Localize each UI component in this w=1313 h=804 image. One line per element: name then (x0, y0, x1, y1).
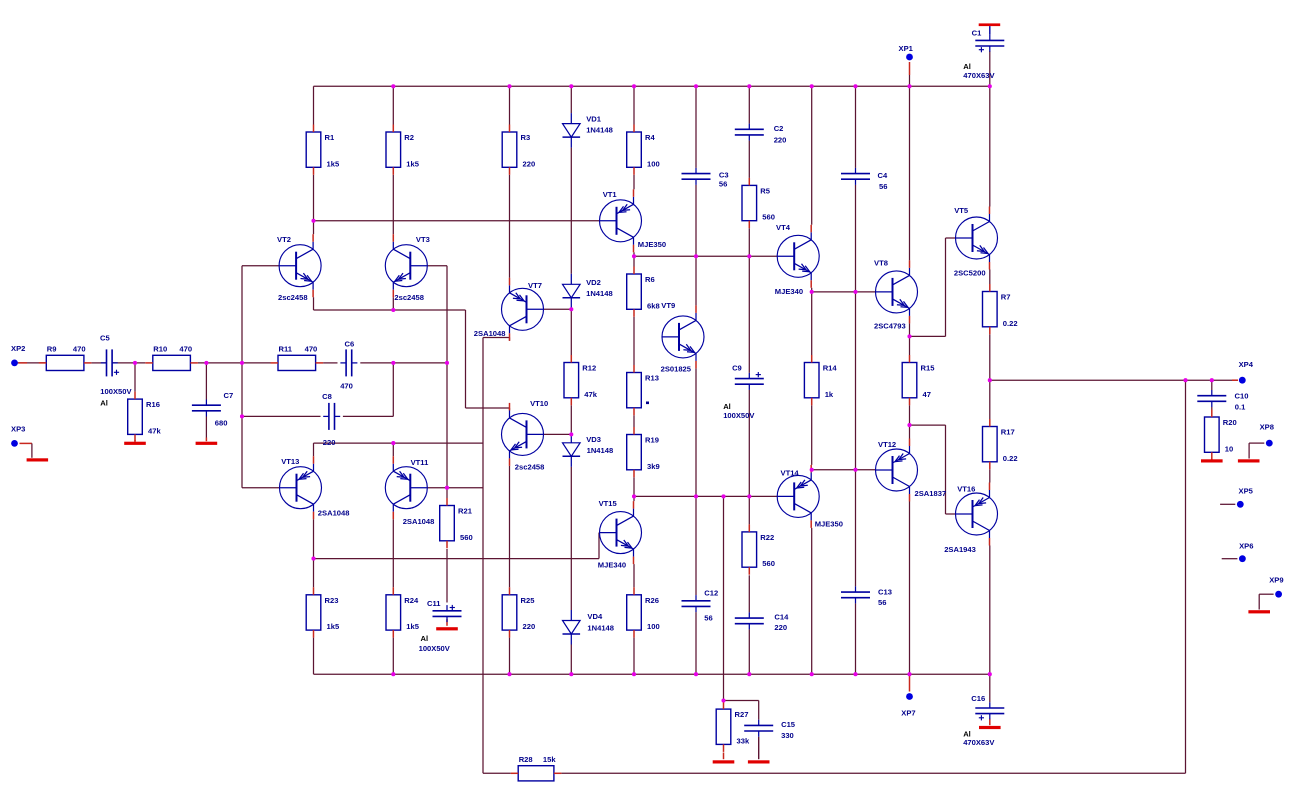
svg-text:3k9: 3k9 (647, 462, 660, 471)
svg-text:VT15: VT15 (599, 499, 618, 508)
svg-text:R24: R24 (404, 596, 419, 605)
svg-text:C16: C16 (971, 694, 985, 703)
svg-text:VD3: VD3 (586, 435, 601, 444)
svg-text:C6: C6 (345, 339, 355, 348)
svg-text:2sc2458: 2sc2458 (394, 293, 424, 302)
svg-text:VT11: VT11 (411, 458, 430, 467)
svg-text:R17: R17 (1001, 428, 1015, 437)
svg-text:R13: R13 (645, 374, 659, 383)
svg-text:470: 470 (340, 381, 353, 390)
svg-text:R2: R2 (404, 133, 414, 142)
svg-text:6k8: 6k8 (647, 301, 660, 310)
svg-text:2sc2458: 2sc2458 (515, 463, 545, 472)
svg-text:2SA1837: 2SA1837 (915, 489, 947, 498)
svg-text:R16: R16 (146, 400, 160, 409)
svg-text:R19: R19 (645, 436, 659, 445)
svg-text:VD4: VD4 (587, 612, 603, 621)
svg-text:C4: C4 (878, 171, 888, 180)
svg-text:56: 56 (719, 180, 727, 189)
svg-text:XP2: XP2 (11, 344, 25, 353)
svg-text:C10: C10 (1235, 392, 1249, 401)
svg-text:VD1: VD1 (586, 115, 602, 124)
svg-text:XP7: XP7 (901, 709, 915, 718)
svg-text:R12: R12 (582, 364, 596, 373)
svg-text:0.1: 0.1 (1235, 403, 1246, 412)
svg-text:VD2: VD2 (586, 278, 601, 287)
svg-text:R11: R11 (279, 345, 293, 354)
svg-text:R15: R15 (921, 364, 936, 373)
svg-text:C7: C7 (224, 391, 234, 400)
svg-text:1N4148: 1N4148 (586, 289, 613, 298)
svg-text:1k5: 1k5 (327, 159, 340, 168)
svg-text:56: 56 (704, 613, 712, 622)
svg-text:R28: R28 (519, 755, 533, 764)
svg-text:560: 560 (762, 559, 775, 568)
svg-text:R4: R4 (645, 133, 655, 142)
svg-text:560: 560 (460, 533, 473, 542)
svg-text:1k5: 1k5 (327, 622, 340, 631)
svg-text:R5: R5 (760, 186, 770, 195)
svg-text:R3: R3 (521, 133, 531, 142)
svg-text:MJE350: MJE350 (815, 520, 843, 529)
svg-text:33k: 33k (737, 736, 750, 745)
svg-text:VT2: VT2 (277, 235, 291, 244)
svg-text:2SA1048: 2SA1048 (318, 509, 350, 518)
svg-text:47k: 47k (584, 390, 597, 399)
svg-text:15k: 15k (543, 755, 556, 764)
svg-text:R14: R14 (823, 364, 838, 373)
svg-text:220: 220 (323, 438, 336, 447)
svg-text:VT16: VT16 (957, 485, 975, 494)
svg-text:Al: Al (100, 399, 108, 408)
svg-text:330: 330 (781, 731, 794, 740)
svg-text:R1: R1 (325, 133, 335, 142)
svg-text:VT1: VT1 (603, 190, 618, 199)
svg-text:220: 220 (774, 135, 787, 144)
svg-text:R25: R25 (521, 596, 536, 605)
svg-text:2SA1048: 2SA1048 (474, 329, 506, 338)
svg-text:XP9: XP9 (1269, 576, 1283, 585)
svg-text:470X63V: 470X63V (963, 71, 995, 80)
svg-text:R26: R26 (645, 596, 659, 605)
svg-text:VT8: VT8 (874, 259, 888, 268)
svg-text:VT12: VT12 (878, 440, 896, 449)
svg-text:C12: C12 (704, 588, 718, 597)
svg-text:MJE340: MJE340 (598, 561, 626, 570)
svg-text:1k5: 1k5 (406, 622, 419, 631)
svg-text:100X50V: 100X50V (723, 411, 755, 420)
svg-text:R7: R7 (1001, 293, 1011, 302)
svg-text:R6: R6 (645, 275, 655, 284)
svg-text:220: 220 (523, 159, 536, 168)
svg-text:VT3: VT3 (416, 235, 430, 244)
svg-text:C14: C14 (774, 612, 789, 621)
svg-text:R10: R10 (153, 345, 167, 354)
svg-text:470: 470 (305, 345, 318, 354)
svg-text:0.22: 0.22 (1003, 319, 1018, 328)
svg-text:470: 470 (179, 345, 192, 354)
svg-text:VT5: VT5 (954, 206, 969, 215)
svg-text:220: 220 (523, 622, 536, 631)
svg-text:1k: 1k (825, 390, 834, 399)
svg-text:XP4: XP4 (1239, 360, 1254, 369)
svg-text:C2: C2 (774, 124, 784, 133)
svg-text:100X50V: 100X50V (419, 644, 451, 653)
svg-text:C8: C8 (322, 392, 332, 401)
svg-text:VT10: VT10 (530, 399, 548, 408)
svg-text:2SA1943: 2SA1943 (944, 545, 976, 554)
svg-text:C11: C11 (427, 599, 441, 608)
svg-text:VT13: VT13 (281, 457, 299, 466)
svg-text:VT9: VT9 (661, 301, 675, 310)
svg-text:1k5: 1k5 (406, 159, 419, 168)
svg-text:470X63V: 470X63V (963, 738, 995, 747)
svg-text:R22: R22 (760, 533, 774, 542)
svg-text:Al: Al (963, 62, 971, 71)
svg-text:Al: Al (421, 634, 429, 643)
svg-text:2SC5200: 2SC5200 (954, 269, 986, 278)
svg-text:0.22: 0.22 (1003, 454, 1018, 463)
svg-text:1N4148: 1N4148 (587, 624, 614, 633)
svg-text:2S01825: 2S01825 (661, 365, 692, 374)
svg-text:2sc2458: 2sc2458 (278, 293, 308, 302)
svg-text:C1: C1 (972, 29, 982, 38)
svg-text:MJE340: MJE340 (775, 287, 803, 296)
svg-text:100X50V: 100X50V (100, 387, 132, 396)
svg-text:R20: R20 (1223, 418, 1237, 427)
svg-text:R23: R23 (325, 596, 339, 605)
svg-text:C15: C15 (781, 720, 796, 729)
svg-text:XP5: XP5 (1239, 487, 1254, 496)
svg-text:1N4148: 1N4148 (586, 126, 613, 135)
svg-text:XP3: XP3 (11, 425, 25, 434)
svg-text:100: 100 (647, 622, 660, 631)
svg-text:470: 470 (73, 345, 86, 354)
svg-text:XP6: XP6 (1239, 542, 1253, 551)
svg-text:2SC4793: 2SC4793 (874, 321, 906, 330)
svg-text:C5: C5 (100, 334, 110, 343)
svg-text:MJE350: MJE350 (638, 240, 666, 249)
svg-text:C13: C13 (878, 588, 892, 597)
svg-text:R9: R9 (47, 345, 57, 354)
svg-text:XP8: XP8 (1260, 423, 1274, 432)
svg-text:VT14: VT14 (781, 469, 800, 478)
svg-text:XP1: XP1 (899, 44, 914, 53)
svg-text:220: 220 (774, 623, 787, 632)
svg-text:R27: R27 (735, 710, 749, 719)
svg-text:680: 680 (215, 419, 228, 428)
svg-text:C3: C3 (719, 170, 729, 179)
svg-text:VT4: VT4 (776, 223, 791, 232)
svg-text:2SA1048: 2SA1048 (403, 517, 435, 526)
svg-text:100: 100 (647, 159, 660, 168)
svg-text:VT7: VT7 (528, 281, 542, 290)
svg-text:56: 56 (879, 182, 887, 191)
svg-text:560: 560 (762, 213, 775, 222)
svg-text:Al: Al (723, 402, 731, 411)
svg-text:47k: 47k (148, 426, 161, 435)
svg-text:10: 10 (1225, 444, 1233, 453)
svg-text:1N4148: 1N4148 (587, 446, 614, 455)
svg-text:R21: R21 (458, 507, 473, 516)
svg-text:47: 47 (923, 390, 931, 399)
svg-text:C9: C9 (732, 364, 742, 373)
svg-text:56: 56 (878, 598, 886, 607)
